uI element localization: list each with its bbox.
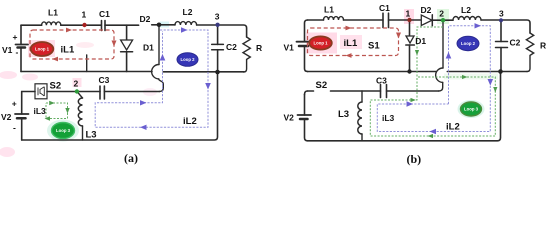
svg-text:D2: D2 [140,14,151,24]
svg-text:L2: L2 [461,5,471,15]
svg-text:V1: V1 [284,43,295,53]
svg-text:Loop 2: Loop 2 [461,41,476,46]
svg-text:L3: L3 [338,109,349,120]
svg-text:V2: V2 [1,112,12,122]
svg-text:(a): (a) [124,151,138,165]
svg-text:iL2: iL2 [446,122,460,133]
svg-text:C1: C1 [99,9,110,19]
svg-text:iL1: iL1 [344,38,358,49]
svg-text:L1: L1 [324,5,334,15]
svg-text:Loop 3: Loop 3 [464,107,479,112]
svg-text:S2: S2 [316,80,328,91]
svg-text:2: 2 [74,79,79,89]
svg-text:D1: D1 [143,43,154,53]
svg-text:S1: S1 [368,41,380,52]
svg-text:L1: L1 [48,8,58,18]
svg-text:D1: D1 [415,36,426,46]
svg-text:-: - [16,47,19,57]
svg-text:+: + [12,99,17,109]
svg-text:V2: V2 [284,113,295,123]
svg-text:D2: D2 [421,5,432,15]
svg-text:C2: C2 [510,38,521,48]
svg-text:iL1: iL1 [61,45,75,56]
svg-text:(b): (b) [407,152,422,166]
svg-text:Loop 1: Loop 1 [313,41,328,46]
svg-text:L2: L2 [183,7,193,17]
svg-text:C3: C3 [376,76,387,86]
svg-text:1: 1 [82,10,87,20]
svg-text:R: R [540,41,546,51]
svg-text:+: + [13,32,18,42]
svg-text:V1: V1 [2,45,13,55]
svg-text:S2: S2 [50,81,62,92]
svg-text:iL3: iL3 [34,106,47,116]
svg-text:3: 3 [215,12,220,22]
svg-text:C1: C1 [379,3,390,13]
svg-text:Loop 2: Loop 2 [180,57,195,62]
svg-text:Loop 1: Loop 1 [35,47,50,52]
svg-text:1: 1 [406,9,411,19]
svg-text:-: - [13,123,16,133]
svg-text:Loop 3: Loop 3 [56,128,71,133]
svg-text:R: R [256,43,262,53]
svg-text:iL2: iL2 [183,116,197,127]
svg-text:C2: C2 [226,42,237,52]
svg-text:2: 2 [439,9,444,19]
svg-text:iL3: iL3 [382,113,395,123]
svg-text:C3: C3 [99,75,110,85]
svg-text:3: 3 [499,9,504,19]
svg-text:L3: L3 [86,130,97,141]
